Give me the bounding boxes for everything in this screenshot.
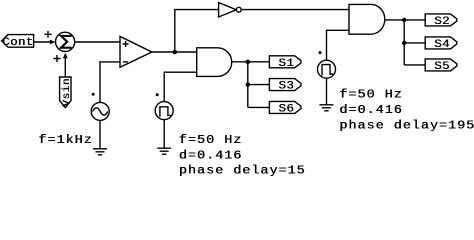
net label S6 — [269, 101, 301, 115]
wire comparator minus input — [100, 62, 120, 103]
value label phase delay=15 — [179, 163, 306, 177]
wire S branch vertical — [247, 62, 249, 108]
junction dot — [246, 60, 250, 64]
svg-text:S4: S4 — [435, 37, 451, 50]
and gate U5 — [349, 4, 385, 34]
junction dot — [246, 82, 250, 86]
net label S1 — [269, 56, 301, 70]
wire Vsin to summer — [64, 58, 66, 78]
svg-text:Vsin: Vsin — [61, 78, 72, 107]
net label S3 — [269, 79, 301, 93]
net label S2 — [425, 14, 457, 28]
wire stub to S5 — [404, 64, 425, 66]
svg-text:phase delay=195: phase delay=195 — [340, 118, 474, 132]
square source V2 — [155, 102, 173, 120]
ground — [319, 105, 333, 111]
value label f=50 Hz — [339, 87, 403, 101]
svg-text:f=50 Hz: f=50 Hz — [179, 133, 242, 147]
wire square source V2 to ground — [163, 120, 165, 148]
svg-text:d=0.416: d=0.416 — [179, 148, 242, 162]
square source V3 — [318, 60, 336, 78]
summer U1 — [56, 32, 75, 51]
summer input arrow bottom — [63, 53, 68, 59]
junction dot — [402, 18, 406, 22]
svg-text:d=0.416: d=0.416 — [340, 103, 403, 117]
wire square source V3 to AND gate U5 — [327, 30, 350, 60]
value label d=0.416 — [179, 148, 243, 162]
wire junction riser to NOT gate U4 — [175, 10, 219, 52]
svg-text:f=1kHz: f=1kHz — [39, 133, 93, 147]
wire AND U3 output to S1 — [232, 61, 270, 63]
junction dot — [173, 50, 178, 55]
wire comparator output to AND gate U3 — [152, 51, 197, 53]
wire sine source to ground — [99, 120, 101, 148]
polarity dot square source V3 — [319, 51, 322, 54]
summer input arrow left — [50, 40, 56, 45]
and gate U3 — [197, 48, 232, 77]
net label S4 — [425, 37, 457, 51]
wire S branch2 vertical — [403, 20, 405, 65]
wire stub to S4 — [404, 42, 425, 44]
value label d=0.416 — [339, 103, 403, 117]
wire AND U5 output to S2 — [385, 19, 425, 21]
svg-text:S1: S1 — [279, 56, 295, 69]
wire stub to S3 — [248, 84, 270, 86]
value label f=50 Hz — [179, 133, 243, 147]
junction dot — [402, 41, 406, 45]
svg-text:phase delay=15: phase delay=15 — [179, 163, 306, 177]
sine source V1 — [91, 102, 109, 120]
wire Cont to summer — [34, 41, 54, 43]
value label f=1kHz — [38, 133, 93, 147]
svg-text:S3: S3 — [279, 79, 295, 92]
net label S5 — [425, 59, 457, 73]
ground — [93, 149, 107, 155]
polarity dot sine source V1 — [92, 93, 95, 96]
wire summer to comparator — [75, 41, 120, 43]
svg-text:S5: S5 — [435, 59, 451, 72]
plus sign at summer left input — [45, 31, 52, 38]
wire NOT gate to AND gate U5 — [241, 9, 349, 11]
wire square source V3 to ground — [326, 78, 328, 104]
not gate U4 — [219, 3, 242, 18]
svg-text:f=50 Hz: f=50 Hz — [340, 87, 403, 101]
comparator U2 — [120, 36, 152, 67]
wire square source V2 to AND gate U3 — [164, 72, 197, 101]
svg-text:Cont: Cont — [2, 35, 33, 48]
value label phase delay=195 — [339, 118, 474, 132]
ground — [157, 148, 171, 154]
svg-text:S6: S6 — [279, 102, 295, 115]
polarity dot square source V2 — [156, 93, 159, 96]
wire stub to S6 — [248, 106, 270, 108]
plus sign at summer bottom input — [54, 55, 61, 62]
net label Cont — [2, 35, 34, 49]
net label Vsin — [60, 77, 73, 108]
svg-text:S2: S2 — [435, 14, 451, 27]
